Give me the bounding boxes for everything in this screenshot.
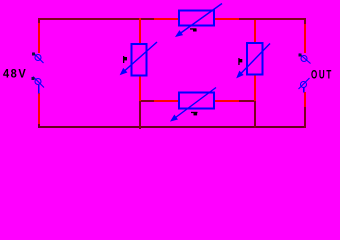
wire top rail red segment left of R1 <box>154 18 179 20</box>
wire red below R3 to node B <box>254 75 256 101</box>
resistor R2 label <box>123 56 127 63</box>
wire dark from node A down to bottom rail <box>139 101 141 129</box>
wire node A horizontal red segment to R4 <box>154 100 179 102</box>
resistor R2 arrow <box>121 42 157 74</box>
wire node A horizontal dark segment <box>141 100 154 102</box>
resistor R1 body (top) <box>179 11 214 26</box>
terminal T4 (OUT bottom) <box>299 78 310 93</box>
wire right vertical red down to terminal T3 <box>304 24 306 53</box>
wire left vertical red down to terminal T1 <box>38 23 40 53</box>
wire right vertical dark stub below corner <box>304 18 306 24</box>
wire red below R2 <box>139 76 141 101</box>
wire top rail red segment right of R1 <box>214 18 239 20</box>
wire dark segment to node B <box>239 100 255 102</box>
terminal T1 (48V top) <box>32 53 44 64</box>
label OUT <box>311 70 333 79</box>
resistor R2 body (left) <box>132 44 147 76</box>
resistor R4 arrow <box>172 88 217 121</box>
wire right vertical red below terminal T4 <box>304 92 306 107</box>
wire top rail dark left segment <box>38 18 154 20</box>
resistor R4 body (bottom) <box>179 93 214 109</box>
wire bottom rail black <box>38 126 306 128</box>
resistor R1 label <box>190 28 197 31</box>
wire red right of R4 <box>214 100 239 102</box>
wire branch vertical red from top rail to R2 <box>139 18 141 44</box>
wire right vertical dark to bottom rail <box>304 107 306 128</box>
label 48V <box>3 69 27 78</box>
wire left vertical dark stub below corner <box>38 18 40 23</box>
wire dark from node B down to bottom rail <box>254 101 256 128</box>
resistor R3 arrow <box>238 44 271 78</box>
resistor R3 label <box>238 58 242 65</box>
wire branch vertical red from top rail to R3 <box>254 20 256 43</box>
wire top rail dark right segment <box>239 18 306 20</box>
terminal T2 (48V bottom) <box>32 77 45 94</box>
wire left bottom dark corner <box>38 124 40 128</box>
terminal T3 (OUT top) <box>299 54 311 64</box>
resistor R1 arrow <box>177 4 223 37</box>
resistor R4 label <box>191 112 198 116</box>
wire left vertical red below terminal T2 <box>38 93 40 124</box>
resistor R3 body (right) <box>247 43 263 75</box>
